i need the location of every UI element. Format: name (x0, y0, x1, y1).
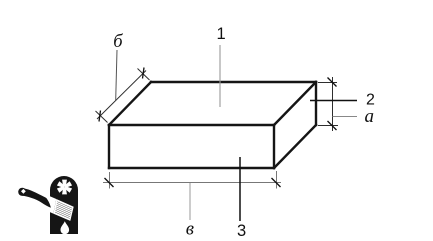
icon: arch body (50, 176, 78, 234)
icon: flame drop (61, 221, 70, 234)
dimension в (bottom) (103, 171, 281, 220)
extension line left (109, 172, 111, 189)
dimension line в (103, 182, 281, 184)
wire top-back edge (151, 81, 316, 83)
tick upper (143, 68, 145, 79)
icon: brush handle (18, 188, 26, 196)
leader line 2 (310, 100, 357, 102)
leader line б (116, 50, 117, 100)
wire bottom-right slant edge (274, 125, 316, 168)
leader line 1 (219, 45, 221, 107)
tick lower (99, 111, 101, 122)
svg-text:a: a (365, 106, 375, 127)
extension line top (318, 82, 337, 84)
leader line 3 (239, 157, 241, 221)
extension line bottom (318, 125, 338, 127)
dimension a (right side) (318, 77, 357, 131)
svg-text:3: 3 (237, 222, 246, 240)
svg-text:б: б (113, 32, 123, 52)
wire top-front edge (109, 124, 274, 126)
tick top (328, 78, 337, 87)
tick right (272, 178, 281, 187)
box slab: top face outline (109, 82, 316, 168)
tick bottom (328, 121, 337, 130)
wire left slant edge (109, 82, 151, 125)
wire front-left vertical edge (108, 125, 110, 168)
wire right slant edge (top) (274, 82, 316, 125)
extension line from front corner (96, 111, 108, 123)
icon: brush bristles with hatch (53, 199, 73, 221)
dimension line a (332, 77, 334, 131)
wire front-right vertical edge (273, 125, 275, 168)
svg-text:в: в (186, 219, 194, 240)
extension line right (276, 171, 278, 189)
icon: snowflake asterisk (57, 180, 72, 195)
wire front-bottom edge (109, 167, 274, 169)
icon: brush ferrule (white) (47, 196, 56, 213)
svg-text:1: 1 (217, 25, 226, 43)
icon: handle hole (21, 189, 26, 194)
tick left (105, 178, 114, 187)
extension line from back corner (138, 69, 150, 81)
dimension б (top-left diagonal) (96, 50, 150, 123)
svg-text:2: 2 (366, 92, 375, 109)
dimension line б (97, 71, 146, 120)
wire back-right vertical edge (315, 82, 317, 125)
leader line a (333, 116, 358, 118)
leader line в (189, 183, 191, 220)
